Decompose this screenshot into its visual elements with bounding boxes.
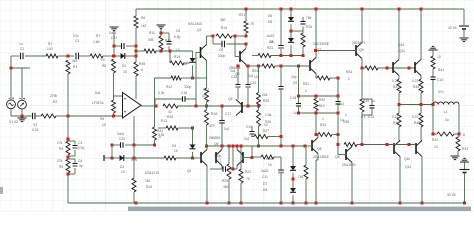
- resistor R22: [239, 169, 251, 183]
- svg-text:D5: D5: [268, 20, 272, 24]
- wire C6 to Q3 coll: [245, 44, 247, 48]
- wire Q8 base: [305, 145, 312, 147]
- resistor R27: [254, 123, 269, 139]
- wire Q6b emit up: [351, 145, 353, 147]
- wire R44 bottom: [134, 140, 155, 145]
- wire Q11 coll: [420, 9, 422, 60]
- svg-text:Q7: Q7: [317, 48, 322, 52]
- node row2 b: [297, 65, 300, 68]
- svg-text:R5: R5: [59, 165, 63, 169]
- svg-text:C1: C1: [20, 47, 24, 51]
- node bias br: [337, 112, 340, 115]
- wire zobel top: [432, 50, 434, 56]
- terminal input2: [103, 155, 105, 161]
- wire R21 join: [245, 33, 247, 36]
- node R13 top: [160, 32, 163, 35]
- wire D1 row: [113, 55, 136, 57]
- left edge mark: [0, 187, 3, 194]
- svg-text:27p: 27p: [73, 34, 79, 38]
- resistor R33: [318, 117, 332, 137]
- svg-text:C22: C22: [119, 137, 125, 141]
- wire opamp V- pin: [133, 116, 135, 145]
- resistor R44: [153, 127, 164, 140]
- svg-text:75: 75: [246, 177, 250, 181]
- transistor Q13: [393, 43, 405, 76]
- transistor Q6b 2SA1850: [335, 147, 356, 168]
- transistor Q3 2N5401: [229, 49, 246, 77]
- resistor R36: [343, 113, 357, 147]
- wire Q6 coll: [221, 146, 223, 150]
- resistor R17: [202, 88, 209, 102]
- transistor Q1 KSA1015: [145, 150, 207, 176]
- svg-text:1u: 1u: [293, 111, 297, 115]
- node C22 left top: [111, 144, 114, 147]
- node row1 b: [290, 54, 293, 57]
- svg-text:10: 10: [254, 75, 258, 79]
- svg-text:R4: R4: [59, 147, 63, 151]
- node y146 b: [221, 145, 224, 148]
- wire D2 row: [112, 157, 136, 159]
- svg-text:R2: R2: [53, 100, 57, 104]
- node R42 right: [458, 133, 461, 136]
- wire bias top: [299, 95, 339, 97]
- node D7-D8: [292, 178, 295, 181]
- svg-text:47n: 47n: [438, 90, 444, 94]
- diode D6: [268, 14, 294, 21]
- capacitor C22: [117, 132, 125, 148]
- svg-text:C2: C2: [75, 39, 79, 43]
- wire R1 to node: [58, 55, 74, 57]
- wire negative bus: [136, 202, 464, 204]
- wire R41-C14: [432, 69, 434, 77]
- node y51 a: [160, 50, 163, 53]
- resistor R19: [216, 18, 232, 38]
- wire Q8 emit: [316, 154, 318, 204]
- wire R14 stubs: [170, 51, 190, 63]
- capacitor C16: [230, 69, 241, 87]
- svg-text:75: 75: [250, 22, 254, 26]
- svg-text:R8: R8: [102, 64, 106, 68]
- wire Q11 emitter: [420, 76, 422, 80]
- node R42 left: [432, 133, 435, 136]
- wire R22 down: [240, 146, 242, 203]
- node C22 right: [133, 144, 136, 147]
- svg-text:1: 1: [305, 89, 307, 93]
- capacitor C18: [158, 85, 192, 102]
- svg-text:R6: R6: [141, 16, 145, 20]
- node bias bm: [315, 112, 318, 115]
- node Q9 base: [314, 49, 317, 52]
- svg-text:R24: R24: [252, 69, 258, 73]
- wire R3 down: [67, 74, 69, 116]
- wire C12 stub: [337, 96, 339, 113]
- wire R18 stub: [206, 106, 208, 146]
- wire D4 down: [192, 152, 194, 158]
- wire output bus: [399, 104, 433, 106]
- resistor R43: [456, 133, 468, 151]
- wire fb down: [67, 116, 69, 141]
- wire R6 bottom: [135, 28, 137, 62]
- svg-text:0u22: 0u22: [261, 169, 269, 173]
- wire Q10 base row: [357, 144, 415, 146]
- wire C22 row: [112, 144, 134, 146]
- node D6-D5: [290, 30, 293, 33]
- svg-text:0u01: 0u01: [117, 132, 125, 136]
- resistor R15: [131, 156, 176, 162]
- diode D3: [183, 58, 196, 66]
- wire R39 stubs: [399, 105, 400, 141]
- wire Q8 coll: [317, 135, 319, 138]
- resistor R18: [205, 110, 218, 128]
- capacitor C7: [214, 154, 226, 172]
- battery V5 -32V: [447, 170, 470, 198]
- capacitor C0 V3: [33, 113, 36, 120]
- node bias tr: [337, 95, 340, 98]
- svg-text:2SA1850: 2SA1850: [342, 163, 356, 167]
- wire C5 branch: [161, 33, 169, 51]
- transistor Q10: [394, 141, 411, 170]
- svg-text:D4: D4: [172, 144, 176, 148]
- node y146 g: [257, 145, 260, 148]
- svg-text:10: 10: [101, 58, 105, 62]
- capacitor C1: [19, 42, 24, 59]
- capacitor C12: [336, 102, 345, 123]
- resistor R29: [222, 164, 231, 189]
- svg-text:R45: R45: [139, 62, 145, 66]
- svg-text:0.22: 0.22: [412, 79, 419, 83]
- svg-text:32 V5: 32 V5: [447, 193, 456, 197]
- resistor R12: [171, 76, 181, 80]
- node R31 right: [337, 77, 340, 80]
- node R29 bus: [228, 202, 231, 205]
- node R25-R26: [257, 105, 260, 108]
- wire D4 top: [192, 128, 194, 145]
- wire C11 stubs: [280, 162, 282, 203]
- node R12 right: [191, 77, 194, 80]
- wire C9 col: [280, 66, 282, 146]
- svg-text:1: 1: [348, 77, 350, 81]
- svg-text:R13: R13: [161, 119, 167, 123]
- svg-text:2SA1381E: 2SA1381E: [313, 155, 330, 159]
- wire R21 top: [245, 9, 247, 21]
- capacitor C5: [167, 29, 181, 44]
- wire R43 top: [458, 134, 459, 137]
- svg-text:2SC3303E: 2SC3303E: [313, 42, 330, 46]
- svg-text:R41: R41: [438, 68, 444, 72]
- svg-text:C7: C7: [217, 159, 221, 163]
- svg-text:R7: R7: [96, 34, 100, 38]
- wire C7 row: [210, 168, 237, 170]
- node clamp left: [112, 55, 115, 58]
- svg-text:0: 0: [141, 68, 143, 72]
- svg-text:4u: 4u: [445, 118, 449, 122]
- svg-text:Q11: Q11: [399, 49, 405, 53]
- wire C20 stub: [247, 66, 249, 106]
- capacitor C11: [261, 169, 284, 179]
- svg-text:1.6K: 1.6K: [93, 40, 101, 44]
- resistor R8: [101, 58, 116, 73]
- node y146 a: [205, 145, 208, 148]
- node C8 rail: [280, 8, 283, 11]
- wire Q5 base up: [251, 146, 253, 158]
- svg-text:Q6: Q6: [214, 142, 219, 146]
- svg-text:C8: C8: [269, 40, 273, 44]
- wire D3 down: [192, 65, 194, 78]
- svg-text:1.0k: 1.0k: [265, 113, 272, 117]
- node Q9 e: [361, 67, 364, 70]
- capacitor C20: [246, 74, 257, 87]
- svg-text:470: 470: [209, 124, 215, 128]
- transistor Q9 2SC5171: [352, 41, 366, 59]
- wire R35 bottom: [361, 112, 363, 118]
- svg-text:1u: 1u: [19, 42, 23, 46]
- svg-text:C4: C4: [78, 159, 82, 163]
- wire bias down: [315, 113, 317, 135]
- svg-text:C19: C19: [246, 125, 252, 129]
- wire C14 down: [432, 80, 434, 105]
- svg-text:V3: V3: [33, 123, 37, 127]
- wire C15 col: [298, 66, 300, 103]
- svg-text:30: 30: [168, 110, 172, 114]
- resistor R25: [257, 93, 270, 107]
- svg-text:2N5551: 2N5551: [209, 136, 221, 140]
- capacitor C19: [244, 125, 255, 141]
- wire D5 down: [290, 45, 292, 55]
- wire R35 col bottom: [361, 118, 363, 145]
- diode D2: [120, 155, 125, 174]
- svg-text:R21: R21: [239, 13, 245, 17]
- svg-text:R15: R15: [131, 158, 137, 162]
- node C20 top: [247, 65, 250, 68]
- svg-text:R31: R31: [303, 82, 309, 86]
- svg-text:30K: 30K: [148, 38, 155, 42]
- wire y146 row: [207, 145, 306, 147]
- svg-text:1: 1: [345, 113, 347, 117]
- wire C15 bot: [298, 106, 300, 113]
- svg-text:Q4: Q4: [228, 97, 233, 101]
- svg-text:R17: R17: [203, 88, 209, 92]
- source V1: [7, 98, 16, 109]
- node bias tl: [297, 95, 300, 98]
- ground above C21: [110, 27, 119, 31]
- svg-text:R28: R28: [266, 157, 272, 161]
- node Q6b bus: [351, 202, 354, 205]
- node Q13 rail: [398, 8, 401, 11]
- node vas in: [195, 105, 198, 108]
- transistor Q5: [237, 150, 243, 166]
- resistor R35: [360, 99, 375, 112]
- wire Q2 base: [196, 53, 201, 107]
- svg-text:270k: 270k: [50, 94, 58, 98]
- node bases mid2: [408, 143, 411, 146]
- node Q9 rail: [361, 8, 364, 11]
- transistor Q8 2SA1381E: [312, 138, 330, 160]
- svg-text:3.3k: 3.3k: [158, 133, 165, 137]
- svg-text:3k0: 3k0: [220, 18, 225, 22]
- svg-text:D2: D2: [120, 165, 124, 169]
- svg-text:R14: R14: [174, 55, 180, 59]
- svg-text:R36: R36: [343, 120, 349, 124]
- node bases mid: [408, 67, 411, 70]
- wire R43 gnd: [457, 151, 459, 155]
- svg-text:Q2: Q2: [197, 28, 202, 32]
- svg-text:0u1: 0u1: [95, 91, 101, 95]
- svg-text:224: 224: [262, 93, 268, 97]
- node opamp out: [155, 105, 158, 108]
- svg-text:R22: R22: [245, 170, 251, 174]
- resistor R10: [132, 178, 152, 192]
- svg-text:0.22: 0.22: [412, 115, 419, 119]
- wire Q9 collector: [361, 9, 363, 43]
- transistor Q12: [416, 141, 422, 157]
- node R33 left: [315, 133, 318, 136]
- wire C12 to R33: [337, 113, 339, 135]
- svg-text:330p: 330p: [184, 85, 192, 89]
- node input junction: [67, 55, 70, 58]
- svg-text:0u01: 0u01: [109, 31, 117, 35]
- diode D7: [263, 166, 296, 186]
- svg-text:10: 10: [264, 123, 268, 127]
- wire divider to bus: [68, 174, 136, 203]
- capacitor C8: [267, 34, 284, 48]
- svg-text:Q10: Q10: [404, 157, 410, 161]
- resistor R13: [159, 36, 171, 50]
- node fb top: [67, 138, 70, 141]
- svg-text:0.22: 0.22: [392, 115, 399, 119]
- wire Q3 emitter: [245, 65, 247, 67]
- wire R9 to fb: [113, 113, 115, 116]
- resistor R5: [57, 159, 70, 173]
- svg-text:Q8: Q8: [317, 147, 322, 151]
- svg-text:Q9: Q9: [359, 48, 364, 52]
- wire R2 to fb node: [56, 115, 68, 117]
- svg-text:Q1: Q1: [187, 169, 192, 173]
- svg-text:D1: D1: [122, 64, 126, 68]
- wire V1-V2 link: [11, 68, 30, 100]
- resistor R26: [301, 25, 312, 47]
- resistor R9: [100, 100, 116, 127]
- resistor R7: [90, 34, 103, 58]
- wire R37 down: [398, 93, 400, 105]
- svg-text:L1: L1: [444, 110, 448, 114]
- wire R31 down: [337, 78, 339, 96]
- wire Q2 collector: [207, 36, 214, 45]
- wire Q6b base: [338, 135, 346, 155]
- wire Q3 base: [235, 36, 240, 57]
- svg-text:3p: 3p: [79, 164, 83, 168]
- resistor R13: [158, 119, 178, 137]
- wire L1 parallel: [433, 105, 459, 135]
- wire R12 left: [155, 78, 172, 106]
- node source ground: [21, 115, 24, 118]
- wire Q1 emit: [206, 166, 208, 204]
- resistor R14: [170, 48, 184, 65]
- wire V3 to R2: [36, 115, 41, 117]
- node divider bottom: [67, 173, 70, 176]
- op-amp U1 LF357A: [92, 91, 141, 118]
- node y158 D4: [191, 157, 194, 160]
- svg-text:330p: 330p: [214, 154, 222, 158]
- node D2 right: [133, 157, 136, 160]
- svg-text:2k2: 2k2: [72, 59, 77, 63]
- svg-text:7k5: 7k5: [298, 175, 303, 179]
- svg-text:C20: C20: [250, 81, 256, 85]
- wire y51: [136, 50, 193, 52]
- resistor R24: [252, 64, 275, 79]
- svg-text:3k0: 3k0: [223, 185, 228, 189]
- diode D1: [121, 53, 127, 74]
- svg-text:330p: 330p: [218, 54, 226, 58]
- capacitor C2: [73, 34, 79, 59]
- svg-text:R1: R1: [48, 42, 52, 46]
- wire C17 stub: [221, 106, 223, 146]
- svg-text:R19: R19: [221, 26, 227, 30]
- svg-text:R27: R27: [263, 129, 269, 133]
- svg-text:20p: 20p: [291, 75, 297, 79]
- wire D3 top: [192, 51, 194, 58]
- battery V4 +32V: [448, 26, 469, 30]
- node y146 i: [292, 145, 295, 148]
- svg-text:C3: C3: [78, 141, 82, 145]
- resistor R16: [163, 104, 178, 119]
- wire gnd to C21 row: [113, 31, 115, 56]
- resistor R23: [258, 40, 274, 58]
- wire row2: [246, 65, 310, 67]
- wire C3 loop: [68, 141, 75, 156]
- wire y128 row: [158, 127, 193, 129]
- wire D8 down: [292, 195, 294, 203]
- node R25 top: [257, 65, 260, 68]
- svg-text:C21: C21: [111, 36, 117, 40]
- svg-text:10: 10: [176, 48, 180, 52]
- svg-text:510: 510: [319, 104, 325, 108]
- ground R43: [451, 156, 460, 160]
- svg-text:Q12: Q12: [405, 165, 411, 169]
- svg-text:R42: R42: [432, 138, 438, 142]
- svg-text:C14: C14: [437, 78, 443, 82]
- svg-text:6u22: 6u22: [267, 34, 275, 38]
- capacitor C17: [219, 112, 231, 131]
- node R30 bus: [305, 202, 308, 205]
- svg-text:R11: R11: [149, 31, 155, 35]
- svg-text:3.3k: 3.3k: [158, 91, 165, 95]
- ground zobel: [429, 46, 438, 50]
- svg-text:0.01: 0.01: [32, 128, 39, 132]
- node R27 right: [280, 135, 283, 138]
- resistor R26b: [257, 110, 272, 126]
- wire R38 down: [420, 93, 422, 105]
- svg-text:D7: D7: [263, 182, 267, 186]
- node Q10 base: [386, 143, 389, 146]
- svg-text:1k2: 1k2: [141, 24, 146, 28]
- node y146 f: [240, 145, 243, 148]
- capacitor C15: [290, 96, 301, 115]
- resistor R39: [392, 113, 401, 127]
- wire D6 top: [290, 9, 292, 17]
- svg-text:R26: R26: [306, 25, 312, 29]
- transistor Q11: [415, 60, 421, 76]
- node out a: [398, 103, 401, 106]
- svg-text:C5: C5: [176, 29, 180, 33]
- svg-text:R40: R40: [414, 121, 420, 125]
- wire to R17: [193, 78, 207, 88]
- diode D8: [263, 188, 296, 192]
- svg-text:R32: R32: [319, 98, 325, 102]
- wire C22-D2 join: [133, 145, 135, 178]
- wire Q9 emitter: [361, 59, 363, 69]
- svg-text:C9: C9: [293, 81, 297, 85]
- wire Q13 emitter: [398, 76, 400, 80]
